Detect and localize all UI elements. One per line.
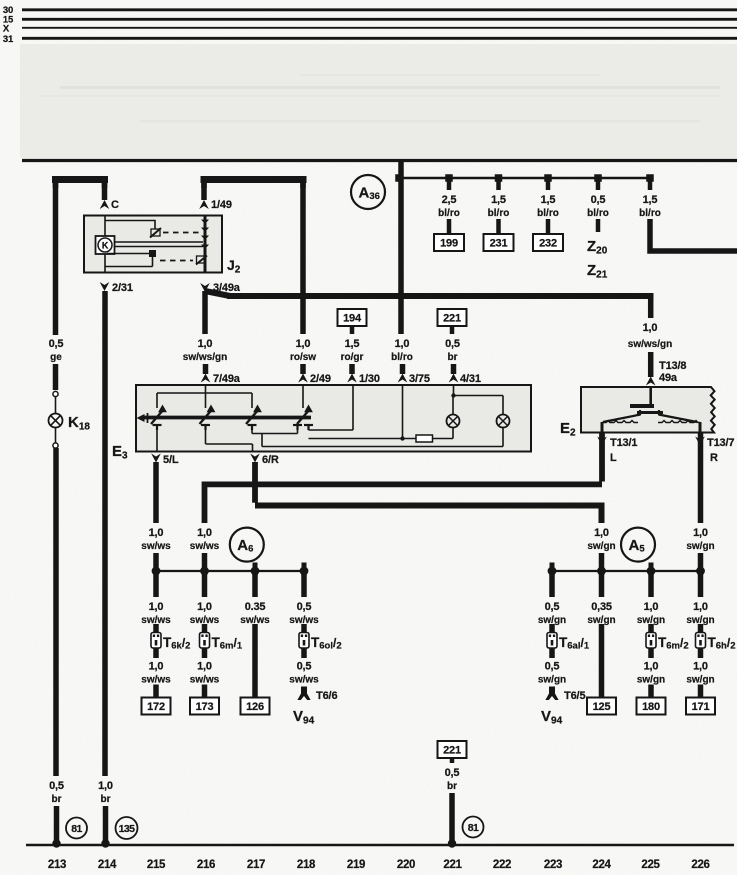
svg-text:1,0: 1,0 (693, 527, 708, 539)
A6 junction dot x=156 (152, 567, 161, 576)
svg-text:1,5: 1,5 (491, 194, 506, 206)
svg-text:sw/ws: sw/ws (141, 675, 171, 686)
svg-text:224: 224 (592, 859, 611, 871)
wire into box 171 (698, 685, 704, 698)
svg-text:135: 135 (119, 823, 135, 835)
pin arrow 3/49a (200, 283, 210, 292)
A5 junction dot x=651 (647, 567, 656, 576)
wire to E3 (349, 364, 355, 374)
svg-text:218: 218 (297, 859, 316, 871)
svg-text:2/49: 2/49 (310, 373, 331, 385)
E3 contact terminal at 157 (153, 424, 162, 426)
svg-text:sw/gn: sw/gn (587, 541, 615, 552)
svg-text:222: 222 (493, 859, 511, 871)
wire thin (55, 397, 57, 414)
svg-text:0,5: 0,5 (545, 601, 560, 613)
wire T13/7 down (698, 445, 704, 523)
A6 junction dot x=255 (251, 567, 260, 576)
E2 wiper right (658, 410, 660, 415)
svg-text:C: C (111, 199, 119, 211)
A5 stub track 223 (550, 563, 555, 572)
wire sw/ws/gn down to E2 (648, 296, 654, 318)
wire below connector (202, 648, 208, 658)
connector T6h/2 (696, 633, 706, 649)
lamp K18 (49, 414, 63, 428)
ground designation 135 (116, 817, 138, 839)
wire L to junction (202, 553, 208, 571)
svg-text:sw/gn: sw/gn (538, 675, 566, 686)
wire below A6 junction x=204.5 (202, 571, 208, 597)
connector T6k/2 (151, 633, 161, 649)
wire below connector (648, 648, 654, 658)
component panel band (20, 44, 737, 158)
svg-text:1,0: 1,0 (149, 601, 164, 613)
branch diagonal to flasher output bus (205, 291, 230, 296)
pin arrow T13/8 (646, 377, 656, 386)
J2 upper contact (150, 228, 161, 238)
wire 5/L to junction (153, 553, 159, 571)
wire stub from 194 (350, 326, 355, 334)
wire 1,0 br (track 214 lower) (102, 291, 108, 776)
wire to E3 (300, 364, 306, 374)
svg-text:T13/7: T13/7 (707, 437, 734, 449)
svg-text:1,0: 1,0 (149, 527, 164, 539)
E2 output stubs (601, 422, 604, 432)
A6 stub track 217 (253, 563, 258, 572)
svg-text:0,5: 0,5 (545, 661, 560, 673)
svg-text:K: K (102, 241, 109, 251)
terminal X bus line (22, 27, 737, 29)
wire to ground rail (54, 806, 60, 843)
svg-text:0,5: 0,5 (49, 780, 64, 792)
A5 junction dot x=601.5 (597, 567, 606, 576)
pin arrow T13/1 (597, 437, 607, 446)
svg-text:sw/ws/gn: sw/ws/gn (183, 352, 227, 363)
E3 contact at 252 (246, 409, 259, 424)
wire right-turn horizontal run (255, 506, 602, 524)
svg-text:T13/1: T13/1 (610, 437, 637, 449)
pin arrow 4/31 (449, 374, 459, 383)
svg-text:sw/gn: sw/gn (686, 541, 714, 552)
bus junction x=598 (594, 174, 602, 182)
E3 4/31 internal wire (453, 385, 503, 415)
bus junction x=498.5 (495, 174, 503, 182)
svg-text:7/49a: 7/49a (213, 373, 241, 385)
wire track 216 top (201, 183, 207, 200)
connector T6ol/2 (299, 633, 309, 649)
relay J2 body (84, 216, 222, 273)
ground rail terminal dot (52, 839, 60, 847)
current track reference box 199 (434, 234, 464, 251)
ground designation 81 (lower) (463, 817, 484, 838)
svg-text:0,5: 0,5 (591, 194, 606, 206)
wire below connector (153, 648, 159, 658)
control unit E2 body (581, 387, 715, 433)
bus junction x=449 (445, 174, 453, 182)
svg-text:223: 223 (544, 859, 562, 871)
svg-text:1,0: 1,0 (693, 601, 708, 613)
ground rail (26, 844, 734, 847)
svg-text:bl/ro: bl/ro (438, 208, 460, 219)
svg-text:R: R (710, 452, 718, 464)
E2 internal plate (630, 404, 654, 408)
E3 contact terminal at 205.5 (201, 424, 210, 426)
J2 lower actuating dashed link (160, 260, 193, 262)
E3 contact at 205.5 (200, 409, 213, 424)
pin arrow 1/30 (347, 374, 357, 383)
svg-text:br: br (101, 794, 111, 805)
svg-text:sw/ws: sw/ws (141, 541, 171, 552)
svg-text:221: 221 (443, 859, 462, 871)
wire track 214 top (102, 183, 108, 200)
relay panel circle A36 (351, 175, 385, 209)
E3 contact terminal at 297.5 (293, 424, 302, 426)
current track reference box 231 (484, 234, 514, 251)
wire below A6 junction x=156 (153, 571, 159, 597)
current track reference box 125 (587, 698, 616, 715)
E3 3/75 internal wire (402, 385, 404, 439)
svg-text:1,0: 1,0 (198, 338, 213, 350)
wire 1,0 ro/sw (track 218) (300, 183, 306, 334)
A6 junction dot x=304 (300, 567, 309, 576)
svg-text:5/L: 5/L (163, 454, 179, 466)
bus drop wire 0,5 bl/ro (596, 178, 601, 190)
pin arrow 3/75 (398, 374, 408, 383)
current track reference box 221 (438, 309, 467, 326)
svg-text:1,0: 1,0 (197, 601, 212, 613)
wire 0,5 br (track 213 lower) (53, 448, 59, 776)
ground designation 81 (66, 818, 87, 839)
wire stub to box 231 (496, 219, 501, 234)
wire below A5 junction x=700.5 (698, 571, 704, 597)
svg-text:221: 221 (443, 745, 461, 757)
A5 stub track 225 (649, 563, 654, 572)
svg-text:br: br (447, 781, 457, 792)
svg-text:bl/ro: bl/ro (639, 208, 661, 219)
svg-text:X: X (3, 24, 10, 35)
E3 contact at 157 (151, 409, 164, 424)
svg-text:172: 172 (147, 701, 165, 713)
connector T6m/2 (646, 633, 656, 649)
svg-text:0,5: 0,5 (297, 601, 312, 613)
wire to E3 (451, 364, 457, 374)
current track reference box 180 (637, 698, 666, 715)
wire to E3 (203, 364, 209, 374)
A6 stub track 218 (302, 563, 307, 572)
svg-text:sw/ws: sw/ws (190, 675, 220, 686)
svg-text:1,0: 1,0 (149, 661, 164, 673)
svg-text:6/R: 6/R (262, 454, 279, 466)
svg-text:0.35: 0.35 (245, 601, 266, 613)
E3 switch bar (143, 416, 311, 420)
svg-text:bl/ro: bl/ro (587, 208, 609, 219)
svg-text:T13/8: T13/8 (659, 360, 686, 372)
svg-text:221: 221 (443, 313, 461, 325)
E2 internal input wire (649, 387, 652, 404)
E2 wiper left (639, 410, 641, 415)
harness circle A5 (621, 528, 655, 562)
wire into box 173 (202, 685, 208, 698)
svg-text:0,5: 0,5 (297, 661, 312, 673)
wire to ground rail (449, 793, 455, 843)
J2 lower internal loop (105, 254, 153, 272)
bus junction x=548 (544, 174, 552, 182)
svg-text:sw/gn: sw/gn (686, 675, 714, 686)
J2 wire coil to top contact (105, 216, 155, 237)
E3 contact terminal at 308.5 (304, 424, 313, 426)
svg-text:220: 220 (397, 859, 415, 871)
relay coil K (96, 236, 115, 254)
A5 junction dot x=552 (548, 567, 557, 576)
J2 internal junction (149, 250, 156, 257)
svg-text:ge: ge (50, 352, 62, 363)
E2 internal bar (637, 411, 663, 414)
switch unit E3 body (136, 385, 531, 452)
terminal 15 bus line (22, 18, 737, 21)
svg-text:199: 199 (440, 238, 458, 250)
connector T6m/1 (200, 633, 210, 649)
current track reference box 221 (lower) (438, 741, 467, 758)
current track reference box 172 (142, 698, 171, 715)
wire to junction (698, 553, 704, 571)
wire 0,5 ge (track 213 top) (53, 183, 59, 335)
current track reference box 126 (241, 698, 270, 715)
wire 5/L down (153, 462, 159, 523)
bus drop wire 1,5 bl/ro (648, 178, 653, 190)
wire stub to Z20/Z21 (596, 219, 601, 232)
wire below connector (698, 648, 704, 658)
wire stub to box 232 (546, 219, 551, 234)
current track reference box 173 (190, 698, 219, 715)
svg-text:231: 231 (490, 238, 508, 250)
svg-text:sw/ws: sw/ws (190, 541, 220, 552)
wire stub from box (450, 758, 455, 763)
current track reference box 194 (338, 309, 367, 326)
wire below connector (301, 648, 307, 658)
svg-text:194: 194 (343, 313, 362, 325)
svg-text:1,0: 1,0 (296, 338, 311, 350)
wire below A5 junction x=552 (549, 571, 555, 597)
svg-text:0,5: 0,5 (49, 338, 64, 350)
svg-text:ro/gr: ro/gr (341, 352, 364, 363)
wire into box 125 (599, 624, 605, 698)
ground connection T6/5 (545, 687, 558, 701)
E3 indicator lamp left (447, 415, 460, 428)
svg-text:1,0: 1,0 (197, 661, 212, 673)
svg-text:216: 216 (197, 859, 215, 871)
E3 contact at 303 (297, 409, 310, 424)
terminal 31 bus line (22, 37, 737, 40)
svg-text:1,5: 1,5 (345, 338, 360, 350)
svg-text:2,5: 2,5 (442, 194, 457, 206)
wire 1,0 bl/ro from panel (398, 162, 404, 334)
svg-text:1,0: 1,0 (395, 338, 410, 350)
wire into box 180 (648, 685, 654, 698)
pin arrow C (100, 200, 110, 209)
wire thin (55, 428, 57, 443)
pin arrow 2/49 (298, 374, 308, 383)
pin arrow 6/R (250, 454, 260, 463)
wire (to K18 lamp) (53, 364, 59, 390)
bus junction (track 220) (395, 174, 403, 182)
svg-text:L: L (610, 452, 617, 464)
svg-text:1,0: 1,0 (644, 661, 659, 673)
bracket link wire (tracks 216-218) (201, 176, 307, 183)
wire T13/1 down (599, 445, 605, 482)
connector point (53, 391, 58, 396)
svg-text:81: 81 (468, 822, 479, 834)
pin arrow T13/7 (695, 437, 705, 446)
wire to E2 (648, 352, 654, 377)
wire below connector (549, 648, 555, 658)
wire below A5 junction x=601.5 (599, 571, 605, 597)
svg-text:br: br (52, 794, 62, 805)
current track reference box 171 (686, 698, 715, 715)
wire to E3 (400, 364, 406, 374)
svg-text:1,0: 1,0 (643, 322, 658, 334)
svg-text:1,0: 1,0 (197, 527, 212, 539)
E3 internal wiring lower (157, 385, 503, 451)
A6 junction bar (156, 570, 304, 572)
svg-text:0,5: 0,5 (445, 767, 460, 779)
svg-text:br: br (448, 352, 458, 363)
svg-text:232: 232 (539, 238, 557, 250)
J2 internal chevrons (201, 220, 209, 250)
flasher output wire sw/ws/gn (horizontal) (227, 293, 654, 299)
svg-text:2/31: 2/31 (112, 282, 133, 294)
svg-text:226: 226 (691, 859, 709, 871)
svg-text:1/30: 1/30 (359, 373, 380, 385)
J2 internal feed wire (204, 216, 207, 273)
J2 upper actuating dashed link (163, 232, 200, 234)
E3 contact terminal at 252 (248, 424, 257, 426)
svg-text:sw/ws/gn: sw/ws/gn (628, 339, 672, 350)
svg-text:1,0: 1,0 (594, 527, 609, 539)
svg-text:1,0: 1,0 (644, 601, 659, 613)
A5 junction bar (552, 570, 701, 572)
svg-text:0,5: 0,5 (445, 338, 460, 350)
svg-text:bl/ro: bl/ro (488, 208, 510, 219)
wire 1,5 bl/ro continuation (650, 219, 737, 251)
bus drop wire 1,5 bl/ro (496, 178, 501, 190)
E3 switch bar arrow (137, 414, 145, 422)
J2 coil-to-feed double wire (115, 241, 204, 243)
pin arrow 1/49 (199, 200, 209, 209)
wire to ground rail (103, 806, 109, 843)
pin arrow 2/31 (100, 282, 110, 291)
ground rail terminal dot (101, 839, 109, 847)
wire R to junction (599, 553, 605, 571)
A5 junction dot x=700.5 (696, 567, 705, 576)
svg-text:sw/ws: sw/ws (289, 675, 319, 686)
svg-text:215: 215 (147, 859, 166, 871)
wire stub to box 199 (447, 219, 452, 234)
svg-text:bl/ro: bl/ro (537, 208, 559, 219)
svg-text:217: 217 (247, 859, 265, 871)
svg-text:213: 213 (48, 859, 66, 871)
svg-text:1,5: 1,5 (643, 194, 658, 206)
wire 6/R down (252, 462, 258, 503)
svg-text:T6/6: T6/6 (316, 690, 337, 702)
positive supply bus bl/ro (399, 177, 650, 180)
svg-text:bl/ro: bl/ro (391, 352, 413, 363)
wire below A6 junction x=304 (301, 571, 307, 597)
wire 3/49a down (202, 291, 208, 334)
ground connection T6/6 (297, 687, 310, 701)
A6 junction dot x=204.5 (200, 567, 209, 576)
wire stub from 221 (450, 326, 455, 334)
bracket link wire (tracks 213-214) (52, 176, 108, 183)
wire below A5 junction x=651 (648, 571, 654, 597)
svg-text:31: 31 (3, 34, 14, 45)
svg-text:sw/gn: sw/gn (637, 675, 665, 686)
svg-text:214: 214 (98, 859, 117, 871)
E2 output runs (602, 421, 638, 423)
bus drop wire 2,5 bl/ro (447, 178, 452, 190)
wire into box 126 (252, 624, 258, 698)
svg-text:3/75: 3/75 (409, 373, 430, 385)
J2 lower contact (196, 256, 207, 265)
pin arrow 5/L (151, 454, 161, 463)
svg-text:0,35: 0,35 (591, 601, 612, 613)
svg-text:180: 180 (642, 701, 660, 713)
svg-text:225: 225 (641, 859, 660, 871)
svg-text:T6/5: T6/5 (564, 690, 585, 702)
svg-text:4/31: 4/31 (460, 373, 481, 385)
band bottom border (22, 159, 737, 162)
svg-text:81: 81 (71, 823, 82, 835)
svg-text:1,5: 1,5 (541, 194, 556, 206)
current track reference box 232 (533, 234, 563, 251)
E3 indicator lamp right (497, 415, 510, 428)
svg-text:1/49: 1/49 (211, 199, 232, 211)
wire left-turn horizontal run (205, 484, 603, 523)
svg-text:125: 125 (593, 701, 611, 713)
svg-text:173: 173 (196, 701, 214, 713)
svg-text:1,0: 1,0 (98, 780, 113, 792)
svg-text:219: 219 (347, 859, 365, 871)
bus junction x=650 (646, 174, 654, 182)
connector point (53, 443, 58, 448)
connector T6al/1 (547, 633, 557, 649)
bus drop wire 1,5 bl/ro (546, 178, 551, 190)
wire below A6 junction x=255 (252, 571, 258, 597)
svg-text:1,0: 1,0 (693, 661, 708, 673)
E3 internal feed wires (157, 385, 252, 408)
wire into box 172 (153, 685, 159, 698)
svg-text:49a: 49a (659, 372, 678, 384)
svg-text:171: 171 (692, 701, 710, 713)
svg-text:126: 126 (246, 701, 264, 713)
ground rail terminal dot (448, 839, 456, 847)
pin arrow 7/49a (201, 374, 211, 383)
harness circle A6 (230, 528, 264, 562)
svg-text:ro/sw: ro/sw (290, 352, 316, 363)
E3 resistor (309, 438, 417, 440)
terminal 30 bus line (22, 8, 737, 11)
